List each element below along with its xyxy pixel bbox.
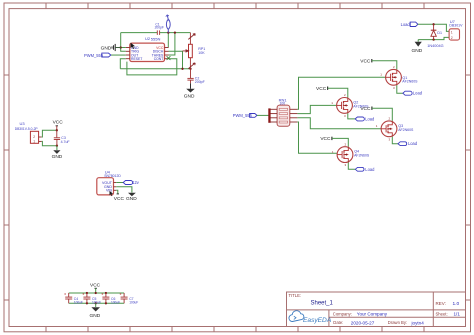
svg-text:TITLE:: TITLE:: [289, 293, 302, 298]
capacitor C4: [64, 293, 83, 304]
svg-text:1.0: 1.0: [453, 301, 460, 307]
svg-text:100: 100: [280, 102, 286, 106]
capacitor C2: [187, 69, 204, 84]
wire RN1 pin to Q2 gate: [297, 105, 336, 113]
capacitor C6: [101, 293, 120, 304]
wire U3 pin1 to GND node: [42, 141, 57, 145]
svg-text:12v: 12v: [132, 180, 140, 185]
connector U3: [15, 121, 42, 143]
wire RN1 pin to Q3 gate: [297, 118, 381, 129]
power VCC for Q2: [316, 86, 348, 98]
svg-text:GND: GND: [412, 48, 423, 54]
wire Load to D1 and U7 pin1: [418, 24, 449, 31]
svg-text:Load: Load: [413, 91, 423, 96]
resistor network RN1: [268, 98, 297, 127]
transistor Q2 AF2N60S: [331, 93, 369, 118]
svg-text:Sheet:: Sheet:: [436, 312, 448, 317]
wire PWM_555 to RN1: [257, 114, 269, 116]
wire OUT stub: [111, 54, 126, 56]
wire VCC pin drop: [167, 33, 169, 48]
svg-text:100uF: 100uF: [92, 300, 101, 304]
power VCC above bank: [90, 283, 101, 293]
svg-text:AF2N60S: AF2N60S: [402, 80, 418, 84]
svg-text:GND: GND: [184, 94, 195, 100]
svg-text:2: 2: [451, 36, 453, 40]
node Load flag at Q4: [355, 167, 375, 172]
svg-text:200pF: 200pF: [155, 26, 164, 30]
svg-text:joytn4: joytn4: [411, 320, 425, 325]
svg-text:100uF: 100uF: [129, 300, 138, 304]
ground below C3: [52, 146, 63, 160]
svg-text:EasyEDA: EasyEDA: [303, 317, 332, 324]
svg-text:PWM_555: PWM_555: [84, 53, 104, 58]
svg-text:GND: GND: [52, 154, 63, 160]
node Load flag at Q2: [355, 116, 375, 121]
svg-text:SN78012D: SN78012D: [104, 174, 121, 178]
svg-text:VCC: VCC: [320, 136, 331, 142]
capacitor C3: [54, 130, 70, 145]
wire bottom rail A: [120, 68, 190, 70]
IC U2 555N: [126, 36, 171, 62]
junction dots: [120, 31, 192, 70]
svg-text:CONT: CONT: [154, 57, 164, 61]
wire Q4 source to Load: [348, 163, 355, 170]
svg-text:Load: Load: [401, 22, 411, 27]
wire Q1 source to Load: [397, 85, 403, 93]
ground below C2: [184, 83, 195, 99]
power VCC for Q3: [360, 106, 392, 121]
power VCC at U4 VIN: [114, 190, 125, 202]
svg-text:D1: D1: [437, 31, 442, 35]
wire bottom rail of bank: [69, 302, 124, 304]
svg-text:4.7uF: 4.7uF: [61, 140, 70, 144]
node Load flag at Q3: [398, 141, 418, 146]
transistor Q3 AF2N60S: [376, 117, 414, 142]
svg-text:Your Company: Your Company: [357, 312, 388, 317]
svg-text:10K: 10K: [198, 51, 205, 55]
svg-text:VCC: VCC: [360, 106, 371, 112]
transistor Q4 AF2N60S: [332, 142, 370, 167]
svg-text:Drawn By:: Drawn By:: [388, 320, 407, 325]
svg-text:Load: Load: [408, 141, 418, 146]
svg-text:200pF: 200pF: [195, 80, 205, 84]
svg-text:U3: U3: [20, 121, 26, 126]
node PWM_555 flag: [233, 113, 257, 118]
svg-text:Load: Load: [365, 167, 375, 172]
junction dots bank: [86, 292, 107, 305]
svg-text:VCC: VCC: [90, 283, 101, 289]
wire GND stub: [121, 47, 126, 49]
power VCC for Q1: [360, 58, 397, 69]
svg-text:AF2N60S: AF2N60S: [354, 154, 370, 158]
node 12v flag: [123, 180, 140, 185]
svg-text:Load: Load: [365, 116, 375, 121]
svg-text:VCC: VCC: [316, 86, 327, 92]
svg-text:REV:: REV:: [436, 301, 446, 306]
connector U7 DB301V: [449, 19, 463, 40]
svg-text:555N: 555N: [151, 37, 161, 42]
wire RN1 pin to Q4 gate: [297, 122, 337, 153]
svg-text:VCC: VCC: [114, 196, 125, 202]
wire bottom rail B with CONT: [127, 59, 177, 75]
title block: [287, 292, 466, 327]
svg-text:100uF: 100uF: [111, 300, 120, 304]
power VCC above C3: [53, 120, 64, 131]
svg-text:1/1: 1/1: [454, 312, 461, 317]
svg-text:1: 1: [33, 139, 35, 143]
wire D1 bottom to GND and U7 pin2: [418, 37, 449, 39]
svg-text:1: 1: [451, 30, 453, 34]
diode D1 1N4004G: [427, 24, 443, 48]
wire RN1 pin to Q1 gate: [297, 77, 385, 109]
svg-text:Sheet_1: Sheet_1: [311, 301, 334, 307]
junction dots at D1: [432, 23, 434, 41]
EasyEDA logo: [289, 311, 332, 324]
power VCC for Q4: [320, 136, 348, 147]
wire THRES to top rail: [169, 33, 175, 55]
svg-text:VCC: VCC: [53, 120, 64, 126]
svg-text:GND: GND: [101, 45, 112, 51]
ground below bank: [90, 303, 101, 319]
node Load flag at Q1: [403, 91, 423, 96]
wire Q2 source to Load: [348, 113, 355, 119]
transistor Q1 AF2N60S: [380, 65, 418, 90]
ground below U4: [126, 193, 137, 202]
capacitor C5: [82, 293, 101, 304]
svg-text:GND: GND: [90, 313, 101, 319]
wire DISCH to rail A: [169, 51, 183, 69]
svg-text:1N4004G: 1N4004G: [427, 44, 443, 48]
wire top rail of bank: [69, 292, 124, 294]
capacitor C7: [120, 293, 139, 304]
wire U4 GND to ground: [116, 187, 132, 193]
ground at load connector: [412, 40, 423, 54]
svg-text:AF2N60S: AF2N60S: [398, 128, 414, 132]
diode D2: [166, 15, 170, 33]
ground flag at 555 GND pin: [101, 44, 121, 52]
junction dots at C3: [56, 129, 58, 147]
svg-text:RESET: RESET: [131, 57, 142, 61]
potentiometer RP1: [183, 33, 206, 69]
wire U3 pin2 to VCC node: [42, 130, 57, 137]
svg-text:Company:: Company:: [333, 312, 352, 317]
svg-text:100uF: 100uF: [74, 300, 83, 304]
wire left VCC drop to TRIG: [121, 33, 126, 52]
svg-text:DB301V-5.0-2P: DB301V-5.0-2P: [15, 127, 39, 131]
svg-text:GND: GND: [126, 196, 137, 202]
svg-text:VCC: VCC: [360, 58, 371, 64]
svg-text:DB301V: DB301V: [449, 24, 463, 28]
wire RESET to bottom rail: [120, 59, 126, 69]
node Load flag: [401, 22, 418, 27]
node PWM_555 flag: [84, 53, 111, 58]
svg-text:Date:: Date:: [333, 320, 343, 325]
capacitor C1: [155, 23, 164, 35]
IC U4: [97, 169, 122, 196]
wire top rail: [121, 32, 191, 34]
wire Q3 source to Load: [392, 137, 398, 144]
svg-text:VIN: VIN: [106, 189, 112, 193]
wire VOUT to 12v flag: [116, 182, 123, 184]
svg-text:2020-05-27: 2020-05-27: [351, 320, 375, 325]
